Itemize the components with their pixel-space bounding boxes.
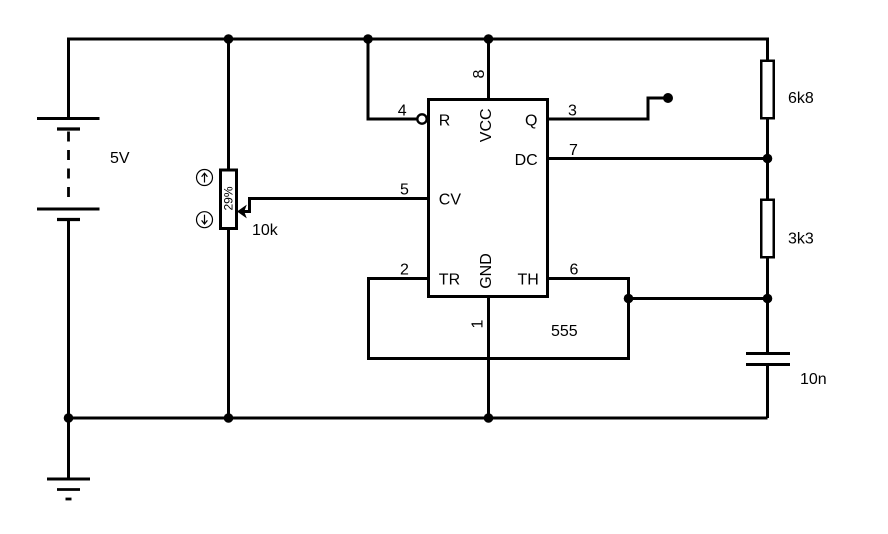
wire pin 4 reset branch [368,39,417,119]
wire battery minus to ground rail [67,221,70,418]
svg-text:Q: Q [525,113,537,130]
svg-text:5: 5 [400,182,409,199]
wire pin 7 discharge to divider [549,157,768,160]
svg-text:DC: DC [515,152,538,169]
junction node divider at pin 7 [763,154,773,164]
wire potentiometer bottom [227,229,230,418]
svg-text:TR: TR [439,272,460,289]
svg-text:10n: 10n [800,371,827,388]
svg-text:4: 4 [398,102,407,119]
wire pin 5 control voltage from wiper [244,199,429,212]
potentiometer up control [197,170,213,186]
resistor 3k3 [761,200,774,258]
svg-text:VCC: VCC [478,108,495,142]
ground [47,418,90,499]
svg-text:5V: 5V [110,150,130,167]
svg-text:R: R [439,113,451,130]
svg-text:3: 3 [568,103,577,120]
svg-text:29%: 29% [222,186,236,210]
svg-text:TH: TH [518,272,539,289]
svg-text:8: 8 [471,69,488,78]
potentiometer 10k body [221,170,237,229]
junction node ground rail at potentiometer [224,413,234,423]
wire pin 6 threshold [549,279,629,299]
wire pin 2 trigger loop [369,279,629,359]
svg-text:10k: 10k [252,222,279,239]
wire pin 8 VCC branch [487,39,490,99]
resistor 6k8 [761,61,774,119]
wire pin 3 output Q [549,98,664,119]
svg-text:GND: GND [478,253,495,289]
wire 6k8 to 3k3 [766,119,769,199]
wire capacitor bottom to ground rail [766,365,769,419]
junction node on top rail at pin 4 branch [363,34,373,44]
svg-text:3k3: 3k3 [788,231,814,248]
junction node ground rail at pin 1 [484,413,494,423]
svg-text:555: 555 [551,323,578,340]
pin 4 inverting bubble [417,114,426,123]
potentiometer down control [197,212,213,228]
svg-text:1: 1 [469,319,486,328]
junction node on top rail at VCC branch [484,34,494,44]
svg-text:7: 7 [569,142,578,159]
node output Q endpoint [663,93,673,103]
wire bottom ground rail [69,417,768,420]
svg-text:6k8: 6k8 [788,90,814,107]
battery 5V [37,119,100,220]
junction node TH loop [624,294,634,304]
svg-text:6: 6 [570,262,579,279]
svg-text:2: 2 [400,262,409,279]
IC U1 555 body [429,100,548,297]
wire pin 1 GND to ground rail [487,297,490,418]
svg-text:CV: CV [439,192,462,209]
junction node ground rail at battery [64,413,74,423]
junction node capacitor top [763,294,773,304]
wire potentiometer top branch [227,39,230,170]
wire 3k3 to capacitor node [766,258,769,353]
junction node on top rail at potentiometer [224,34,234,44]
wire top rail from battery plus to 6k8 top [69,39,768,118]
wiper arrowhead [237,205,247,219]
capacitor 10n [746,354,790,365]
wire TH node to capacitor node [629,297,768,300]
